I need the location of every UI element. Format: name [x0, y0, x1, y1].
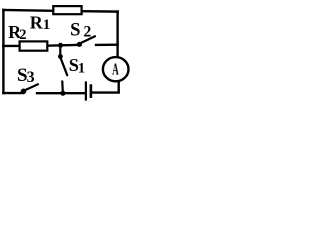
label R1 [30, 13, 51, 34]
ammeter U1 circle [103, 57, 129, 81]
label R2 [8, 22, 26, 43]
wire left border [2, 10, 4, 93]
battery long plate (+) [85, 81, 87, 100]
switch S3 blade [25, 84, 38, 90]
wire top left segment [3, 9, 53, 12]
node junction dot (row2 / S1 branch) [58, 43, 63, 48]
switch S2 pivot dot [77, 42, 82, 47]
switch S1 blade [61, 59, 67, 76]
switch S1 lower stub [61, 81, 64, 92]
switch S3 pivot dot [21, 89, 27, 95]
wire ammeter bottom stub [117, 82, 119, 93]
wire row2 mid (R2 to S2 pivot) [48, 44, 81, 47]
wire top right segment [82, 10, 118, 13]
svg-text:S: S [70, 20, 80, 41]
label S3 [17, 65, 35, 86]
svg-text:3: 3 [27, 69, 35, 86]
wire row2 right (S2 contact to right border) [96, 44, 118, 47]
svg-text:A: A [112, 59, 119, 78]
wire bottom left (corner to S3) [3, 92, 23, 94]
switch S2 blade [80, 36, 95, 43]
wire bottom mid (S3 contact to battery) [37, 92, 85, 94]
wire right border [116, 12, 118, 57]
svg-text:2: 2 [84, 23, 92, 40]
battery short plate (-) [90, 84, 93, 98]
node bottom junction dot [60, 91, 65, 96]
switch S1 pivot dot [58, 54, 63, 59]
resistor R1 [53, 6, 81, 14]
switch S1 upper stub [59, 45, 61, 54]
wire bottom right (battery to ammeter stub) [92, 91, 119, 93]
svg-text:1: 1 [78, 61, 85, 77]
svg-text:2: 2 [19, 27, 26, 43]
label S2 [70, 20, 91, 41]
resistor R2 [20, 41, 48, 50]
label S1 [69, 55, 85, 77]
svg-text:R: R [30, 13, 44, 33]
svg-text:1: 1 [43, 17, 51, 33]
wire row2 left (border to R2) [3, 45, 19, 47]
